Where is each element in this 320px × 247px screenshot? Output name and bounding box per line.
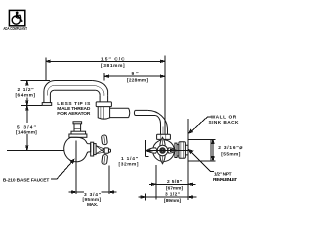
svg-text:MAX.: MAX.	[87, 202, 98, 208]
cross handle (side view, 4-prong cross)	[146, 137, 176, 164]
wheelchair symbol	[12, 12, 22, 25]
extension line handle front (side view)	[146, 140, 149, 157]
hex nut lower band	[69, 134, 87, 137]
horizontal supply arm (left of break)	[110, 108, 129, 117]
extension lines 2 3/16	[211, 139, 215, 161]
svg-text:[146mm]: [146mm]	[16, 129, 37, 135]
svg-text:15″ C/C: 15″ C/C	[101, 56, 125, 62]
bonnet plate (front view)	[91, 142, 94, 156]
wall flange (side view)	[179, 142, 186, 158]
svg-text:2 1/2″: 2 1/2″	[18, 87, 35, 93]
dimension 5 3/4" vertical	[26, 106, 28, 150]
centerline right faucet	[148, 149, 190, 151]
spout left bend	[44, 81, 55, 103]
dimension 3 3/4	[76, 191, 109, 193]
handle upper prong (edge-on)	[101, 135, 107, 145]
faucet body (side view)	[153, 140, 175, 162]
extension line bottom of spout outlet	[21, 104, 42, 106]
leader B-210	[51, 160, 74, 179]
svg-text:9″: 9″	[132, 71, 140, 77]
extension line top of spout	[21, 80, 50, 82]
svg-text:[32mm]: [32mm]	[119, 161, 139, 167]
svg-text:2 3/16″⌀: 2 3/16″⌀	[218, 145, 242, 151]
svg-text:3 1/2″: 3 1/2″	[165, 192, 181, 198]
dimension 2 1/2" vertical	[26, 81, 28, 106]
swivel nut (side view)	[157, 134, 171, 139]
svg-text:[228mm]: [228mm]	[127, 77, 148, 83]
top shank	[74, 124, 81, 131]
swivel nut	[96, 102, 111, 107]
faucet body (front view): top shank lip	[73, 122, 82, 124]
centerline left faucet	[7, 149, 64, 151]
elbow to vertical drop (side view)	[147, 110, 167, 134]
svg-text:FOR AERATOR: FOR AERATOR	[57, 111, 91, 117]
dimension 2 5/8	[149, 183, 196, 185]
svg-text:[381mm]: [381mm]	[101, 63, 125, 69]
aerator collar	[42, 103, 52, 106]
extension line 2 5/8 left	[155, 165, 157, 200]
dimension 15" C/C	[45, 58, 47, 81]
svg-text:1 1/4″: 1 1/4″	[121, 156, 139, 162]
leader wall or sink back	[190, 117, 212, 133]
pipe break symbol	[129, 108, 136, 117]
ADA compliance box	[9, 10, 24, 25]
dimension 1 1/4 arrow	[146, 150, 150, 152]
svg-text:[67mm]: [67mm]	[166, 186, 183, 192]
handle lower prong (edge-on)	[102, 154, 108, 164]
svg-text:[64mm]: [64mm]	[15, 93, 35, 99]
svg-text:[55mm]: [55mm]	[221, 151, 240, 157]
svg-text:[89mm]: [89mm]	[164, 198, 181, 204]
leader 1/2 NPT	[190, 151, 214, 172]
svg-text:1/2″ NPT: 1/2″ NPT	[214, 172, 232, 178]
handle hub	[104, 148, 109, 153]
svg-text:ADA COMPLIANT: ADA COMPLIANT	[3, 26, 27, 31]
faucet body blob	[64, 137, 91, 162]
svg-text:SINK BACK: SINK BACK	[209, 120, 240, 126]
extension lines 3 3/4	[76, 141, 109, 195]
horizontal supply arm (right of break)	[135, 110, 155, 115]
extension line at faucet centerline (side view)	[164, 56, 166, 135]
svg-text:2 5/8″: 2 5/8″	[167, 179, 183, 185]
spout right bend down	[93, 81, 108, 96]
swing spout horizontal tube (front view)	[55, 80, 93, 82]
hex nut upper band	[71, 131, 86, 134]
spout inner shade line	[55, 84, 94, 86]
bonnet rings (side view)	[175, 143, 177, 157]
dimension 9"	[103, 73, 105, 80]
stem cone	[96, 146, 104, 154]
svg-text:B-210 BASE FAUCET: B-210 BASE FAUCET	[3, 177, 49, 183]
wall line	[187, 119, 189, 200]
svg-text:FEMALE INLET: FEMALE INLET	[213, 177, 237, 183]
stem cap	[108, 149, 110, 152]
shank nipple at wall	[185, 145, 188, 155]
inlet body behind wall	[188, 139, 211, 161]
swivel body cylinder	[98, 107, 109, 120]
dimension 2 3/16 vertical	[212, 139, 214, 161]
spout drop	[100, 96, 108, 102]
svg-text:WALL OR: WALL OR	[211, 114, 237, 120]
dimension 3 1/2	[139, 196, 197, 198]
